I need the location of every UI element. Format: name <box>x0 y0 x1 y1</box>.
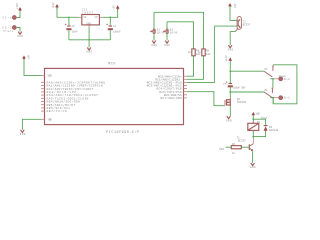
junction <box>272 78 274 80</box>
ground under MCU VSS <box>20 130 26 136</box>
supply +5V at MCU VDD <box>22 54 30 60</box>
svg-text:R2: R2 <box>232 143 236 146</box>
supply +12V for regulator <box>52 2 59 9</box>
wire +12V to coil and diode <box>252 115 254 123</box>
svg-text:+5V: +5V <box>234 3 237 8</box>
svg-text:X2-1: X2-1 <box>2 17 12 20</box>
transistor T1 BC337 <box>237 136 254 150</box>
resistor R2 <box>231 143 241 155</box>
wire X2-2 to GND <box>16 28 20 32</box>
wire T1 emitter to GND <box>252 151 254 163</box>
svg-text:C2: C2 <box>72 25 76 28</box>
gnd rail under regulator <box>69 39 110 41</box>
svg-text:GND: GND <box>87 51 93 54</box>
wire diode to coil bottom <box>253 131 265 137</box>
crossover wire loop <box>273 65 297 104</box>
wire +12V to relay contact K1-A <box>230 70 264 72</box>
svg-text:+12V: +12V <box>16 3 19 10</box>
supply +12V at output stage <box>225 55 232 62</box>
wire Q1 source to GND <box>229 106 231 116</box>
svg-text:1k: 1k <box>232 151 236 155</box>
junction <box>229 91 231 93</box>
connector pin X1-1 <box>274 96 290 100</box>
resistor R5 <box>198 49 211 56</box>
wire S1 to R5 top <box>154 12 204 49</box>
svg-text:1k: 1k <box>188 50 192 54</box>
capacitor C5 100uF 50V <box>223 81 245 89</box>
wire T2 emitter to GND <box>230 32 235 45</box>
svg-text:10k: 10k <box>206 52 211 56</box>
wire S2 to GND <box>166 33 168 40</box>
svg-text:VSS: VSS <box>48 117 52 121</box>
svg-text:GND: GND <box>17 35 23 38</box>
pushbutton S1 <box>150 12 165 34</box>
wire R2 to T1 base <box>241 146 249 148</box>
wire C2 to gnd rail <box>68 30 70 40</box>
wire X1-2 node <box>270 78 274 80</box>
svg-text:GND: GND <box>250 166 256 169</box>
wire +12V down to C5 <box>229 61 231 83</box>
svg-text:100uF: 100uF <box>113 30 121 33</box>
pushbutton S2 <box>163 22 178 35</box>
junction <box>252 136 254 138</box>
svg-text:+12V: +12V <box>256 113 261 116</box>
junction <box>88 39 90 41</box>
ground under regulator <box>87 48 93 54</box>
relay contact K1-B <box>264 88 274 98</box>
wire X1-1 node <box>270 97 274 99</box>
connector pin X1-2 <box>274 74 290 81</box>
svg-text:RC7/AN9/SDO: RC7/AN9/SDO <box>161 96 182 100</box>
svg-text:Track: Track <box>3 29 13 33</box>
net label DIR wire <box>219 147 231 151</box>
wire T2 base <box>214 25 237 27</box>
mosfet Q1 IRF540 <box>225 98 247 106</box>
svg-text:+12V: +12V <box>52 2 55 9</box>
wire +12V to regulator VI <box>57 7 79 17</box>
wire X2-1 to +12V <box>16 11 20 17</box>
wire MCU RC5 to Q1 gate <box>187 92 225 106</box>
wire C5 to Q1 drain <box>229 87 231 99</box>
junction <box>109 16 111 18</box>
svg-text:C1: C1 <box>113 25 117 28</box>
MCU pin names left <box>47 74 106 122</box>
svg-text:RB7/TX/CK: RB7/TX/CK <box>47 109 67 113</box>
wire regulator VO to +5V <box>103 8 118 17</box>
capacitor C2 <box>65 24 78 34</box>
svg-text:DIR: DIR <box>219 148 224 151</box>
svg-text:GND: GND <box>228 48 234 51</box>
svg-text:10-XX: 10-XX <box>170 32 178 35</box>
ground under Q1 <box>226 116 232 122</box>
svg-text:GND: GND <box>151 44 157 47</box>
svg-text:GND: GND <box>226 119 232 122</box>
svg-text:100uF 50V: 100uF 50V <box>233 86 246 89</box>
svg-text:C5: C5 <box>223 83 227 86</box>
wire +5V to VDD <box>24 59 41 76</box>
svg-text:GND: GND <box>164 44 170 47</box>
wire drain node to relay contact K1-B <box>230 91 264 93</box>
svg-text:BC337: BC337 <box>238 139 246 142</box>
MCU IC2 PIC16F690 <box>45 63 184 135</box>
diode D2 flyback <box>264 126 279 132</box>
svg-text:G5V2: G5V2 <box>261 117 268 120</box>
svg-text:K1: K1 <box>265 89 269 92</box>
wire +5V to T2 collector <box>230 6 237 20</box>
MCU left pin stubs <box>41 76 45 120</box>
junction <box>68 16 70 18</box>
wire coil bottom to T1 collector <box>252 130 254 138</box>
svg-text:K1: K1 <box>265 68 269 71</box>
svg-text:GND: GND <box>20 133 26 136</box>
svg-text:VO: VO <box>94 16 98 19</box>
connector pin X2-2 <box>2 26 18 33</box>
svg-text:MCU: MCU <box>108 63 115 67</box>
wire VSS to GND <box>22 119 41 129</box>
svg-text:+12V: +12V <box>225 55 228 62</box>
wire C1 to gnd rail <box>109 30 111 40</box>
supply +5V at T2 <box>228 3 237 8</box>
svg-text:K1: K1 <box>257 121 261 124</box>
svg-text:IRF540: IRF540 <box>237 101 247 104</box>
ground under T1 <box>250 163 256 169</box>
resistor R4 <box>188 49 201 56</box>
junction <box>252 118 254 120</box>
svg-text:BC337: BC337 <box>243 24 251 27</box>
wire MCU RC2 to T2 base <box>187 26 214 82</box>
MCU right pin stubs <box>184 76 188 98</box>
svg-text:VI: VI <box>83 16 87 19</box>
wire S1 to GND <box>153 33 155 40</box>
supply +5V after regulator <box>113 5 120 10</box>
svg-text:1k: 1k <box>198 50 202 54</box>
wire R5 to MCU RC2 <box>187 56 204 80</box>
transistor T2 BC337 <box>237 17 251 30</box>
wire S2 to R4 top <box>167 22 194 49</box>
wire regulator GND down <box>88 28 90 48</box>
ground under X2 <box>17 32 23 38</box>
svg-text:10uF: 10uF <box>72 30 79 33</box>
wire R4 to MCU RC1 <box>187 56 194 76</box>
wire top rail to C1 <box>109 17 111 25</box>
ground under S2 <box>164 41 170 47</box>
svg-text:X1-1: X1-1 <box>284 97 291 100</box>
supply +12V P1 (track input) <box>16 3 22 12</box>
relay contact K1-A <box>264 66 274 77</box>
wire top rail to C2 <box>68 17 70 25</box>
svg-text:1N4148: 1N4148 <box>269 129 279 132</box>
ground under S1 <box>151 41 157 47</box>
supply +12V at relay coil <box>252 112 261 116</box>
MCU pin names right <box>147 74 182 100</box>
svg-text:PIC16F690-E/P: PIC16F690-E/P <box>106 130 139 135</box>
svg-text:GND: GND <box>86 22 91 25</box>
svg-text:7805T: 7805T <box>82 11 93 14</box>
capacitor C1 <box>106 24 121 34</box>
junction <box>229 70 231 72</box>
svg-text:VDD: VDD <box>48 74 52 78</box>
svg-text:+5V: +5V <box>113 5 116 10</box>
relay coil K1 <box>248 117 268 132</box>
ground under T2 <box>228 45 234 51</box>
junction <box>272 97 274 99</box>
svg-text:X1-2: X1-2 <box>284 78 291 81</box>
svg-text:10-XX: 10-XX <box>157 32 165 35</box>
voltage regulator IC1 7805T <box>79 9 104 28</box>
connector pin X2-1 <box>2 16 18 20</box>
svg-text:+5V: +5V <box>27 54 30 59</box>
